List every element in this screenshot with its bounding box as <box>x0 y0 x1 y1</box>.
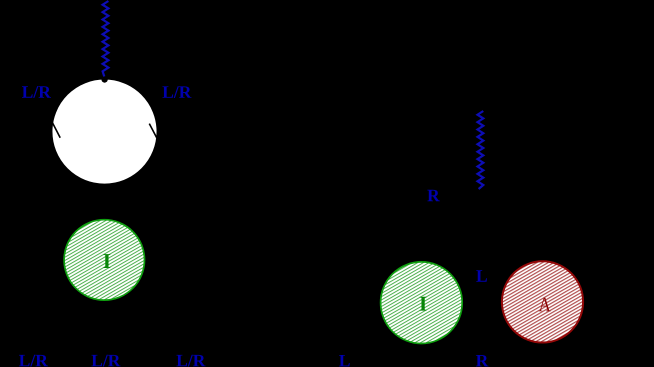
label L middle <box>476 270 487 281</box>
node state circle I2 (green hatched) <box>381 262 463 344</box>
label L/R upper-left <box>22 86 51 98</box>
wire right loop segment over circle S <box>149 124 156 138</box>
node state circle I1 (green hatched) <box>64 220 144 300</box>
wire wavy squiggle middle <box>478 111 484 189</box>
label L/R bottom 3 <box>176 355 205 367</box>
label L/R bottom 1 <box>19 355 48 367</box>
label L/R bottom 2 <box>91 355 120 367</box>
label A inside circle A <box>539 298 551 312</box>
wire left loop segment over circle S <box>52 122 60 138</box>
label L bottom <box>339 355 350 366</box>
label I inside I1 <box>103 254 110 268</box>
label R middle <box>427 190 439 201</box>
node state circle A (red hatched) <box>502 261 583 342</box>
wire wavy input squiggle top-left <box>103 1 109 77</box>
label L/R upper-right <box>162 86 191 98</box>
node state circle S (white) <box>52 79 157 184</box>
label R bottom <box>476 355 488 366</box>
node attachment dot on circle S <box>102 77 108 83</box>
label I inside I2 <box>420 297 427 311</box>
